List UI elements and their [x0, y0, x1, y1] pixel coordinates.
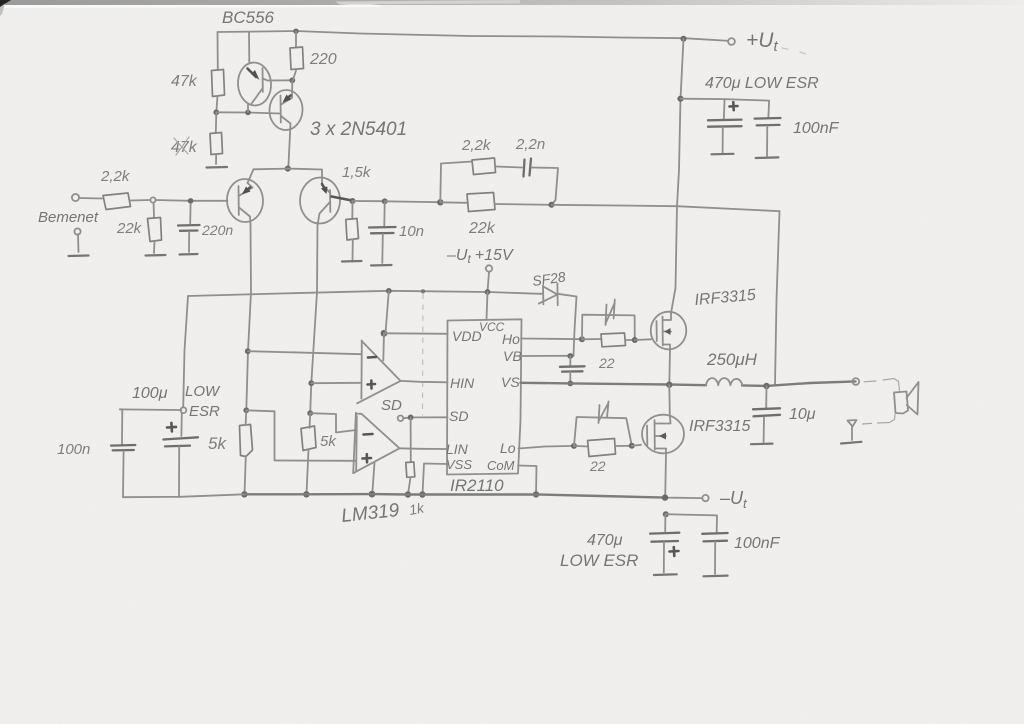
terminal: input ground stub: [74, 228, 80, 234]
wire: T4 base to 1,5k node (thick): [332, 197, 353, 201]
op-amp U2 LM319b: [353, 413, 399, 473]
node: 470u lower tee: [663, 511, 669, 517]
capacitor 470u top (electrolytic): [723, 99, 726, 119]
node: LO gate loop left: [571, 443, 577, 449]
wire: feedback node up to 2,2k branch: [440, 162, 472, 203]
wire: tail bar to emitters: [254, 168, 323, 171]
capacitor 100n left: [120, 409, 123, 444]
wire: caps top link: [120, 408, 182, 411]
node: feedback right junction: [549, 202, 555, 208]
wire: cap to lower node: [532, 168, 559, 205]
wire: U1 minus input: [248, 351, 362, 354]
diode: LO gate speedup: [574, 417, 632, 446]
node: U1 Vdd dot: [381, 330, 388, 337]
wire: LO to gate network: [519, 446, 575, 449]
wire: COM to bus: [518, 466, 537, 495]
wire: long feedback run to output node: [552, 205, 780, 211]
wire: T3 collector down to comparators: [246, 225, 251, 410]
node: VB junction: [567, 353, 573, 359]
wire: diode to VB: [574, 297, 577, 356]
wire: Vcc/Vdd bus: [188, 291, 541, 296]
node: U1 plus tap: [308, 380, 314, 386]
wire: 22k to VS feedback run: [495, 203, 552, 206]
ground below 10n: [371, 264, 392, 267]
wire: T4 collector down: [310, 225, 317, 413]
wire: ground bus (thick): [244, 494, 665, 498]
ground: output: [841, 442, 862, 444]
wire: Vcc pin drop: [487, 292, 488, 320]
capacitor 470u bottom electrolytic: [664, 514, 666, 531]
resistor 220: [295, 31, 297, 47]
terminal: output ground side: [848, 420, 857, 427]
ground below 1,5k: [342, 260, 362, 263]
wire: U1 output to HIN: [401, 381, 448, 382]
transistor M2 IRF3315 low side: [642, 415, 684, 454]
wire: left ground return: [123, 494, 244, 497]
node: U2 ground on bus: [369, 491, 376, 498]
node: LO gate loop right: [629, 443, 635, 449]
wire: Vdd to IC: [384, 332, 448, 335]
node: bootstrap on VS bus: [567, 381, 573, 387]
node: rail junction at +Ut drop: [681, 36, 687, 42]
wire: Vdd stub into U1: [382, 333, 385, 360]
node: base/1,5k junction: [350, 198, 356, 204]
capacitor 100nF bottom: [666, 514, 717, 532]
node: -Ut junction: [662, 494, 668, 500]
resistor 5k right: [301, 426, 316, 451]
resistor 22 (LO gate): [574, 445, 588, 448]
node: SD/1k junction: [408, 415, 414, 421]
wire: terminal to ground: [77, 235, 80, 252]
node: COM on bus: [533, 491, 539, 497]
transistor T4 2N5401 (feedback side): [299, 177, 341, 224]
capacitor 2,2n series: [524, 160, 525, 177]
wire: +Ut top rail: [218, 31, 685, 38]
resistor 5k left: [240, 425, 253, 457]
node: rail junction at 220 resistor: [293, 29, 298, 34]
node: 5k right on bus: [303, 491, 309, 497]
IC U3 IR2110 box: [447, 319, 522, 474]
wire: to M1 gate: [635, 338, 651, 341]
terminal -Ut open circle: [702, 495, 708, 501]
wire: U2 output to LIN: [400, 447, 448, 450]
node: T1 base tap: [245, 110, 251, 116]
capacitor 10n: [383, 201, 385, 226]
node: dashed tap on bus: [421, 289, 425, 293]
node: Vdd riser junction: [386, 288, 392, 294]
label plus 100u: [167, 423, 176, 432]
resistor 22k feedback (on line): [440, 201, 467, 204]
transistor T2 2N5401 (cascode): [268, 89, 303, 131]
resistor 22 (HO gate): [582, 338, 601, 340]
wire: terminal to Vcc bus: [488, 272, 490, 292]
wire: bus to -Ut terminal: [665, 497, 702, 500]
wire: VSS to bus: [423, 464, 448, 495]
node: 1k on bus: [405, 491, 411, 497]
wire: to M2 gate: [632, 445, 641, 446]
wire: M2 drain: [668, 385, 671, 416]
node: HO gate loop left: [579, 336, 585, 342]
wire: HO to gate network: [521, 338, 582, 341]
wire: rail to +Ut terminal: [684, 38, 728, 41]
resistor R 22k to ground: [153, 203, 155, 218]
wire: 2,2k to series cap: [496, 167, 523, 168]
transistor M1 IRF3315 high side: [651, 312, 687, 350]
wire: VS bus (thick): [521, 383, 707, 385]
node: mirror base junction: [213, 109, 219, 115]
node: T1 collector to 220 junction: [289, 77, 295, 83]
wire: 47k to base node: [216, 96, 217, 112]
node: HO gate loop right: [632, 337, 638, 343]
wire: node to 10n node: [353, 200, 385, 202]
wire: U1 plus input: [311, 382, 361, 384]
terminal: output open circle: [852, 378, 859, 385]
terminal SD open circle: [398, 416, 404, 422]
node: feedback junction: [437, 199, 443, 205]
wire: VB from diode: [521, 355, 574, 357]
transistor T1 BC556 (mirror diode side): [237, 61, 273, 106]
wire: 2,2k to junction: [131, 199, 151, 202]
node: U2 minus tap: [307, 410, 313, 416]
wire: step route to U2 minus: [310, 413, 356, 432]
dashed link to speaker top: [864, 379, 899, 382]
ground below 22k: [146, 254, 166, 257]
ground below 220n: [180, 253, 198, 256]
wire: to feedback node: [385, 200, 440, 203]
node: open junction after 2,2k: [150, 197, 155, 202]
node: U1 minus tap: [245, 348, 251, 354]
capacitor 220n: [189, 204, 191, 224]
wire: junction to T3 base: [156, 199, 228, 202]
capacitor 100n top: [767, 101, 770, 117]
node: diff pair tail junction: [285, 166, 291, 172]
node: Vcc junction: [485, 289, 491, 295]
wire: M2 source to -Ut: [664, 454, 667, 498]
node: VSS on bus: [419, 491, 425, 497]
capacitor bootstrap: [569, 356, 571, 366]
node: 220n tap: [188, 198, 194, 204]
transistor T3 2N5401 (input side): [226, 178, 264, 223]
resistor 47k upper: [212, 70, 225, 97]
resistor 47k lower: [215, 112, 218, 133]
dashed link to speaker bottom: [863, 415, 896, 425]
terminal: input Bemenet: [72, 194, 79, 201]
dashed pencil line to SD: [422, 294, 425, 415]
resistor R 2,2k (input series): [103, 193, 131, 210]
scan corner mark: [0, 0, 11, 9]
capacitor 100u electrolytic: [180, 413, 182, 436]
wire: Vdd riser: [386, 291, 389, 333]
resistor 1k: [410, 417, 412, 462]
wire: rail down to 47k R1: [217, 32, 219, 70]
node: U2 plus tap: [243, 407, 249, 413]
wire: input to 2,2k: [79, 197, 102, 200]
node: 10n tap: [382, 198, 388, 204]
label plus 470u top: [730, 102, 738, 110]
inductor 250uH: [706, 378, 742, 385]
wire: M1 drain to +Ut rail: [681, 39, 684, 99]
wire: U2 ground stub: [372, 463, 374, 494]
wire: M1 source to VS: [668, 350, 671, 385]
node: output filter junction: [763, 383, 769, 389]
wire: L-route to U2 plus: [246, 410, 356, 461]
node: 5k left on bus: [241, 491, 247, 497]
resistor 2,2k feedback: [472, 158, 496, 175]
pencil smudge right of +Ut: [782, 48, 809, 55]
wire: SD to IC: [403, 417, 447, 418]
op-amp U1 LM319a: [357, 341, 400, 404]
node: top cap tee: [677, 96, 683, 102]
resistor 1,5k: [351, 201, 353, 219]
terminal +15V: [486, 265, 492, 271]
speaker: [894, 382, 919, 415]
terminal: 100u open circle: [181, 407, 187, 413]
label plus 470u bottom: [670, 547, 679, 556]
ground: [69, 254, 89, 257]
wire: base bus y112: [216, 112, 279, 113]
diode: HO gate speedup: [582, 315, 635, 340]
node: VS center junction: [666, 382, 672, 388]
ground below 47k: [207, 166, 228, 169]
wire: cap feed top right: [681, 99, 770, 101]
terminal +Ut open circle: [728, 38, 735, 45]
wire: bus left end down to 100u: [183, 296, 188, 407]
diode SF28: [541, 293, 544, 295]
